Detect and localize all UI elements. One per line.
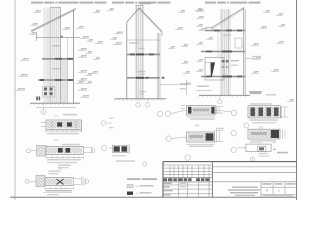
svg-text:2-2: 2-2 xyxy=(54,138,58,142)
section 3 right wall xyxy=(243,8,245,96)
right detail R1 body xyxy=(248,106,281,118)
elevation mark xyxy=(181,45,188,46)
section PV-1 title xyxy=(31,2,43,4)
stadia list cells xyxy=(260,182,262,197)
detail 2-2 left stack xyxy=(37,145,46,156)
elevation mark xyxy=(259,27,267,28)
section 2 ground line xyxy=(115,98,167,100)
elevation mark xyxy=(95,42,103,43)
section 1 interior marks xyxy=(52,45,60,46)
elevation mark xyxy=(276,14,283,15)
right detail R3 xyxy=(250,141,262,143)
elevation mark xyxy=(93,11,100,12)
detail 1-1 dims xyxy=(46,130,82,132)
axis bubble xyxy=(101,121,106,126)
elevation mark xyxy=(78,89,87,90)
elevation mark xyxy=(80,37,89,38)
elevation mark xyxy=(175,28,183,29)
title block row labels xyxy=(164,183,172,185)
elevation mark xyxy=(15,89,25,90)
section 3 chamber xyxy=(205,58,224,81)
section 3 dark wedge xyxy=(211,63,216,78)
legend title xyxy=(127,178,141,180)
section 2 left wall xyxy=(126,22,128,99)
elevation mark xyxy=(113,43,122,44)
section 3 bottom annotations xyxy=(197,86,209,88)
elevation mark xyxy=(90,72,98,73)
elevation mark xyxy=(78,56,87,57)
middle detail M2 dims xyxy=(187,143,215,145)
section 3 window xyxy=(235,38,242,48)
elevation mark xyxy=(30,24,38,25)
section 1 foundation box xyxy=(43,87,56,98)
elevation mark xyxy=(76,82,84,83)
section 1 axis dimension xyxy=(36,107,76,109)
vertical dim between sections xyxy=(186,80,188,95)
section 2 attic floor line xyxy=(127,39,160,41)
elevation mark xyxy=(93,58,100,59)
elevation mark xyxy=(195,9,202,10)
section 1 ground line xyxy=(30,102,80,104)
elevation mark xyxy=(85,52,92,53)
section 3 roof slope xyxy=(212,8,244,28)
section 3 left eave xyxy=(206,27,213,29)
title block outer xyxy=(163,161,297,163)
sheet frame bottom xyxy=(10,196,297,198)
section 3 interior marks xyxy=(231,60,239,61)
title block lower verticals xyxy=(178,182,180,197)
middle detail M1 ticks above xyxy=(181,105,185,107)
elevation mark xyxy=(251,72,259,73)
axis bubble xyxy=(218,100,222,104)
section 1 floor slab 1 xyxy=(38,79,74,81)
axis bubble xyxy=(185,155,190,160)
section 2 floor slab 1 xyxy=(127,77,160,79)
elevation mark xyxy=(196,10,204,11)
middle detail M1 right ticks xyxy=(216,106,218,114)
legend item brick xyxy=(127,185,133,188)
detail 2-2 body xyxy=(46,147,83,155)
section 2 roof right slope xyxy=(139,8,162,32)
right detail R2 ticks xyxy=(282,130,284,139)
title block designation cell lines xyxy=(212,162,214,198)
elevation mark xyxy=(29,33,37,34)
elevation mark xyxy=(198,29,207,30)
section 2 interior marks xyxy=(129,42,139,43)
elevation mark xyxy=(278,25,285,26)
title block left grid rows xyxy=(163,164,213,166)
elevation mark xyxy=(85,82,92,83)
axis bubble xyxy=(145,103,149,107)
detail 3-3 dims xyxy=(45,187,73,189)
section PV-3 title xyxy=(205,2,216,4)
svg-text:5-5: 5-5 xyxy=(259,125,263,129)
elevation mark xyxy=(33,11,41,12)
axis bubble xyxy=(25,179,29,183)
elevation mark xyxy=(85,74,92,75)
detail 1-1 left ticks xyxy=(41,122,46,124)
elevation mark xyxy=(196,43,203,44)
section 2 roof left slope xyxy=(127,8,139,22)
right detail R2 dims xyxy=(250,140,276,141)
section 1 duct wall lines xyxy=(43,8,45,104)
section 2 eave fascia xyxy=(161,32,163,37)
elevation mark xyxy=(271,70,279,71)
section 2 axis bubbles xyxy=(137,99,139,103)
elevation mark xyxy=(110,38,117,39)
svg-text:1-1: 1-1 xyxy=(54,114,58,118)
elevation mark xyxy=(168,47,175,48)
elevation mark xyxy=(183,83,191,84)
legend aux text xyxy=(116,160,135,162)
detail 3-3 left stack xyxy=(36,175,45,186)
axis bubble xyxy=(157,111,162,116)
axis bubble xyxy=(165,111,170,116)
axis bubble xyxy=(166,136,171,141)
section 3 right leader label xyxy=(246,58,256,60)
sheet frame right xyxy=(296,0,298,200)
elevation mark xyxy=(196,60,203,61)
detail 3-3 body xyxy=(45,178,73,186)
axis bubble xyxy=(231,147,236,152)
elevation mark xyxy=(287,100,294,101)
detail 3-3 right ext xyxy=(73,179,81,185)
elevation mark xyxy=(178,11,185,12)
elevation mark xyxy=(253,58,261,59)
elevation mark xyxy=(86,40,93,41)
title text area xyxy=(232,187,258,188)
elevation mark xyxy=(183,72,190,73)
axis bubble xyxy=(101,145,106,150)
section 1 left wall xyxy=(35,33,37,41)
section 3 ground line xyxy=(199,94,250,96)
elevation mark xyxy=(196,17,204,18)
elevation mark xyxy=(78,71,87,72)
middle detail M2 body xyxy=(187,132,215,142)
title block lower rows xyxy=(163,184,213,186)
middle detail M1 body xyxy=(187,106,216,116)
right detail R1 ticks xyxy=(281,107,283,118)
title block header band xyxy=(164,178,168,181)
axis bubble xyxy=(231,131,236,136)
elevation mark xyxy=(76,27,84,28)
middle detail M1 dims xyxy=(187,116,216,118)
right detail R2 body xyxy=(248,129,280,139)
middle detail M2 right ticks xyxy=(216,130,218,143)
axis bubble xyxy=(142,162,146,166)
section 2 right leader xyxy=(160,84,183,86)
elevation mark xyxy=(62,28,70,29)
elevation mark xyxy=(206,38,213,39)
section 3 vent duct hatched column xyxy=(221,9,229,95)
detail 2-2 right ext xyxy=(83,148,91,153)
axis bubble xyxy=(231,110,237,116)
section 1 roof slope xyxy=(31,8,76,31)
elevation mark xyxy=(276,42,284,43)
section 2 floor slab 2 xyxy=(127,53,160,55)
legend item concrete xyxy=(127,192,133,195)
axis bubble xyxy=(85,180,89,184)
elevation mark xyxy=(107,9,114,10)
elevation mark xyxy=(196,70,203,71)
section 3 column dark cells xyxy=(222,60,225,62)
axis bubble xyxy=(136,103,140,107)
detail 2-2 dims xyxy=(46,157,83,159)
section 1 vent duct hatched column xyxy=(50,8,61,104)
section 3 axis bubble xyxy=(219,95,221,99)
title block upper verticals xyxy=(169,165,171,178)
section 1 floor slab 2 xyxy=(42,58,74,60)
section 1 inner shaft band xyxy=(61,59,68,103)
svg-text:3-3: 3-3 xyxy=(58,166,62,170)
axis bubble xyxy=(41,110,46,115)
elevation mark xyxy=(20,59,29,60)
section 1 right wall xyxy=(73,10,75,104)
svg-text:4-4: 4-4 xyxy=(195,123,199,127)
elevation mark xyxy=(114,32,123,33)
right detail R1 dims xyxy=(250,119,278,121)
elevation mark xyxy=(78,49,87,50)
section 2 vent duct hatched column xyxy=(136,6,143,99)
section 2 apex label xyxy=(140,3,151,5)
elevation mark xyxy=(181,62,188,63)
sheet frame left xyxy=(14,0,16,200)
detail 1-1 body xyxy=(46,120,82,130)
axis bubble xyxy=(250,157,255,162)
elevation mark xyxy=(80,96,89,97)
axis bubble xyxy=(27,149,31,153)
section 2 right wall xyxy=(157,33,159,99)
section 1 attic floor line xyxy=(36,36,80,38)
elevation mark xyxy=(18,75,28,76)
elevation mark xyxy=(78,79,87,80)
detail A body xyxy=(109,147,112,149)
section 3 floor slabs xyxy=(205,30,245,32)
section PV-2 title xyxy=(112,2,124,4)
elevation mark xyxy=(263,11,270,12)
elevation mark xyxy=(251,44,259,45)
elevation mark xyxy=(196,25,203,26)
axis bubble xyxy=(244,123,249,128)
section 1 foundation dark pair xyxy=(36,97,38,101)
svg-text:П: П xyxy=(266,189,268,193)
